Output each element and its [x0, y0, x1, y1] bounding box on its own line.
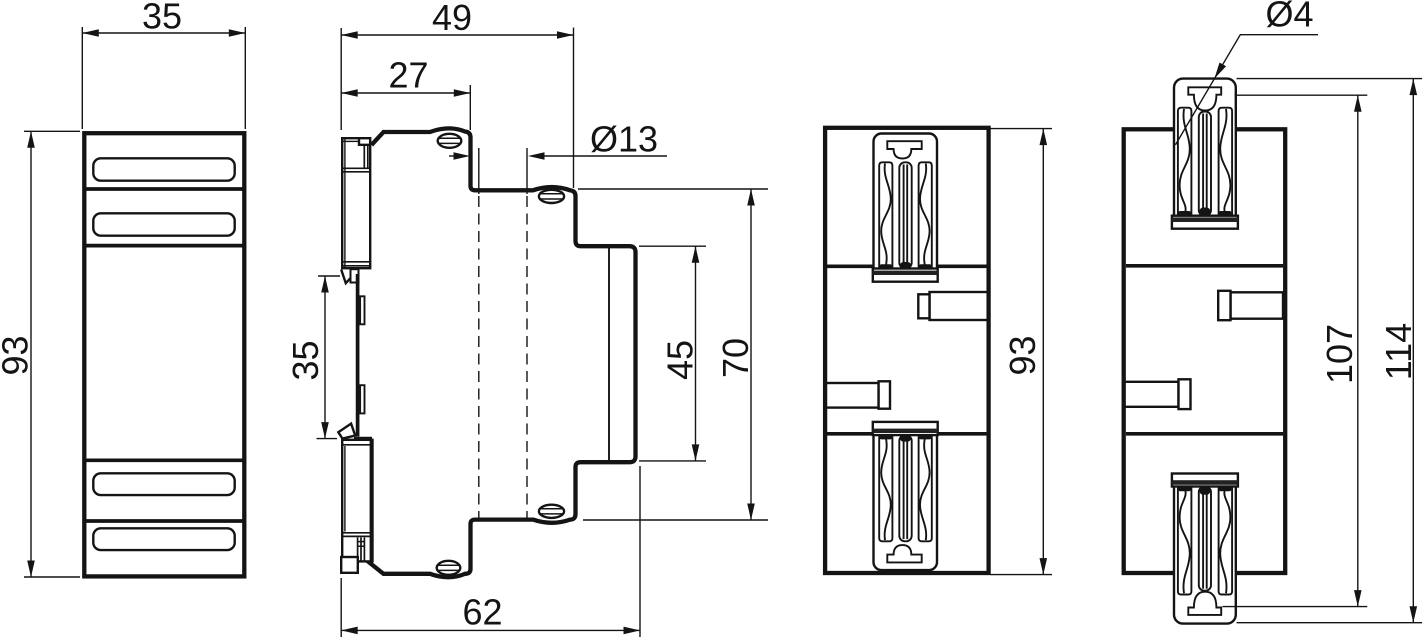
- svg-text:35: 35: [142, 0, 182, 36]
- svg-text:35: 35: [285, 340, 326, 380]
- svg-text:93: 93: [0, 335, 36, 375]
- svg-text:49: 49: [432, 0, 472, 38]
- svg-text:70: 70: [715, 338, 756, 378]
- svg-text:Ø4: Ø4: [1265, 0, 1313, 35]
- svg-text:93: 93: [1002, 335, 1043, 375]
- svg-text:27: 27: [388, 55, 428, 96]
- svg-text:114: 114: [1378, 323, 1419, 380]
- svg-text:45: 45: [660, 340, 701, 380]
- svg-text:Ø13: Ø13: [590, 119, 658, 160]
- svg-text:107: 107: [1319, 324, 1360, 384]
- svg-text:62: 62: [462, 592, 502, 633]
